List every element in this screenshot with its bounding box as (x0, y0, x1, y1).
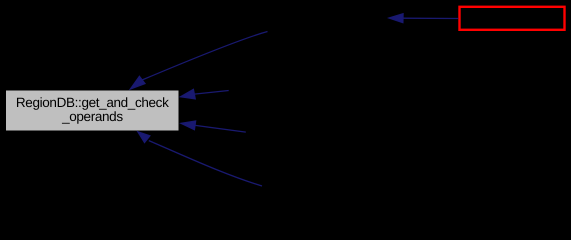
node (red-outlined caller box, text hidden on black) (460, 7, 565, 30)
wire (194, 91, 228, 95)
arrowhead (389, 14, 404, 23)
edge: hidden node -> get_and_check_operands (long curve into box top) (130, 32, 268, 90)
arrowhead (138, 132, 151, 143)
edge: hidden node -> box right side (upper short arrow) (180, 89, 229, 99)
arrowhead (130, 76, 145, 89)
svg-text:_operands: _operands (61, 109, 123, 124)
edge: hidden node -> box bottom (long diagonal arrow) (138, 132, 263, 187)
wire (149, 141, 262, 186)
wire (403, 17, 458, 19)
arrowhead (181, 121, 196, 130)
wire (142, 32, 267, 80)
edge: red box -> hidden node (horizontal arrow) (389, 14, 459, 23)
wire (195, 125, 246, 132)
node RegionDB::get_and_check_operands (grey current node) (6, 90, 180, 131)
edge: hidden node -> box right side (lower short arrow) (181, 121, 246, 132)
arrowhead (180, 89, 195, 99)
